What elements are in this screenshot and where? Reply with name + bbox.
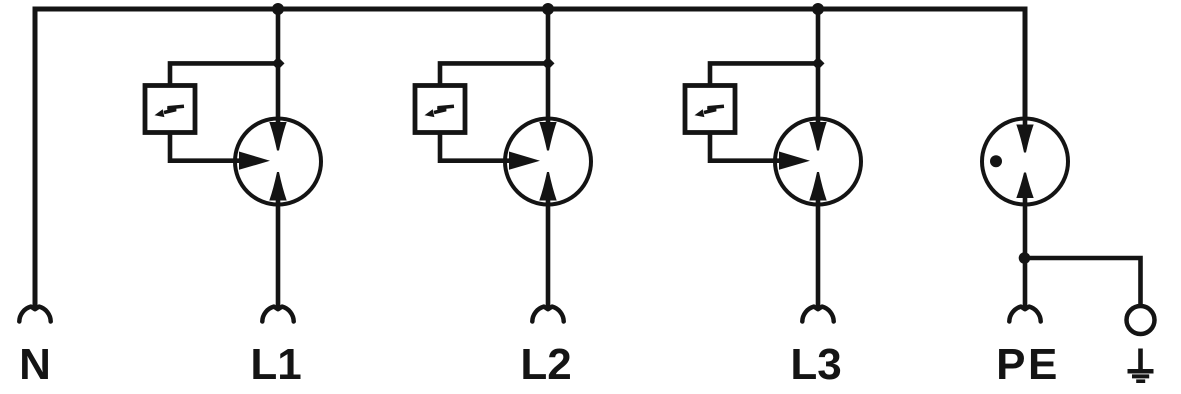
junction: L2 trigger branch tap xyxy=(542,57,555,70)
electrode arrow top L1 xyxy=(269,122,286,151)
electrode arrow bottom L1 xyxy=(269,172,286,201)
spark gap circle PE (gas discharge tube) xyxy=(982,119,1068,205)
trigger monitoring box L2 xyxy=(415,86,465,133)
spark gap circle L2 xyxy=(505,119,591,205)
trigger monitoring box L3 xyxy=(685,86,735,133)
wire: L1 trigger branch top segment xyxy=(170,63,278,85)
lightning flash symbol inside box L2 xyxy=(425,106,455,117)
terminal L3 (plug-in contact) xyxy=(802,307,833,322)
earth terminal ring xyxy=(1127,306,1155,334)
svg-text:PE: PE xyxy=(996,340,1060,389)
trigger electrode arrow left L3 xyxy=(779,152,810,170)
wire: L2 vertical from bus to spark gap xyxy=(546,9,551,127)
wire: PE vertical to terminal xyxy=(1023,196,1028,309)
wire: L1 vertical from bus to spark gap xyxy=(276,9,281,127)
electrode arrow top L3 xyxy=(809,122,826,151)
svg-text:N: N xyxy=(19,340,51,389)
junction: L2 tap on top bus xyxy=(542,3,554,15)
junction: PE to earth electrode branch xyxy=(1019,252,1031,264)
spark gap circle L3 xyxy=(775,119,861,205)
wire: L3 trigger branch bottom segment xyxy=(710,133,785,161)
top bus wire connecting N, L1, L2, L3 taps to PE branch xyxy=(35,9,1025,309)
ground (earth) symbol xyxy=(1128,349,1154,382)
wire: earth branch horizontal and drop xyxy=(1025,258,1141,305)
electrode arrow bottom L3 xyxy=(809,172,826,201)
terminal L2 (plug-in contact) xyxy=(532,307,563,322)
wire: L3 trigger branch top segment xyxy=(710,63,818,85)
gas-filled indicator dot PE xyxy=(990,155,1002,167)
lightning flash symbol inside box L1 xyxy=(155,106,185,117)
wire: L3 vertical to terminal xyxy=(816,196,821,309)
junction: L1 trigger branch tap xyxy=(272,57,285,70)
wire: L2 vertical to terminal xyxy=(546,196,551,309)
wire: PE stub into circle top xyxy=(1023,116,1028,129)
svg-text:L2: L2 xyxy=(520,340,571,389)
wire: L2 trigger branch top segment xyxy=(440,63,548,85)
junction: L3 tap on top bus xyxy=(812,3,824,15)
wire: L3 vertical from bus to spark gap xyxy=(816,9,821,127)
svg-text:L3: L3 xyxy=(790,340,841,389)
electrode arrow top PE xyxy=(1016,125,1033,153)
spark gap circle L1 xyxy=(235,119,321,205)
lightning flash symbol inside box L3 xyxy=(695,106,725,117)
trigger monitoring box L1 xyxy=(145,86,195,133)
terminal PE (plug-in contact) xyxy=(1009,307,1040,322)
trigger electrode arrow left L1 xyxy=(239,152,270,170)
electrode arrow bottom PE xyxy=(1016,173,1033,199)
wire: L1 vertical to terminal xyxy=(276,196,281,309)
trigger electrode arrow left L2 xyxy=(509,152,540,170)
wire: L1 trigger branch bottom segment xyxy=(170,133,245,161)
wire: L2 trigger branch bottom segment xyxy=(440,133,515,161)
electrode arrow bottom L2 xyxy=(539,172,556,201)
junction: L1 tap on top bus xyxy=(272,3,284,15)
electrode arrow top L2 xyxy=(539,122,556,151)
svg-text:L1: L1 xyxy=(250,340,301,389)
terminal L1 (plug-in contact) xyxy=(262,307,293,322)
terminal N (plug-in contact) xyxy=(19,307,50,322)
junction: L3 trigger branch tap xyxy=(812,57,825,70)
